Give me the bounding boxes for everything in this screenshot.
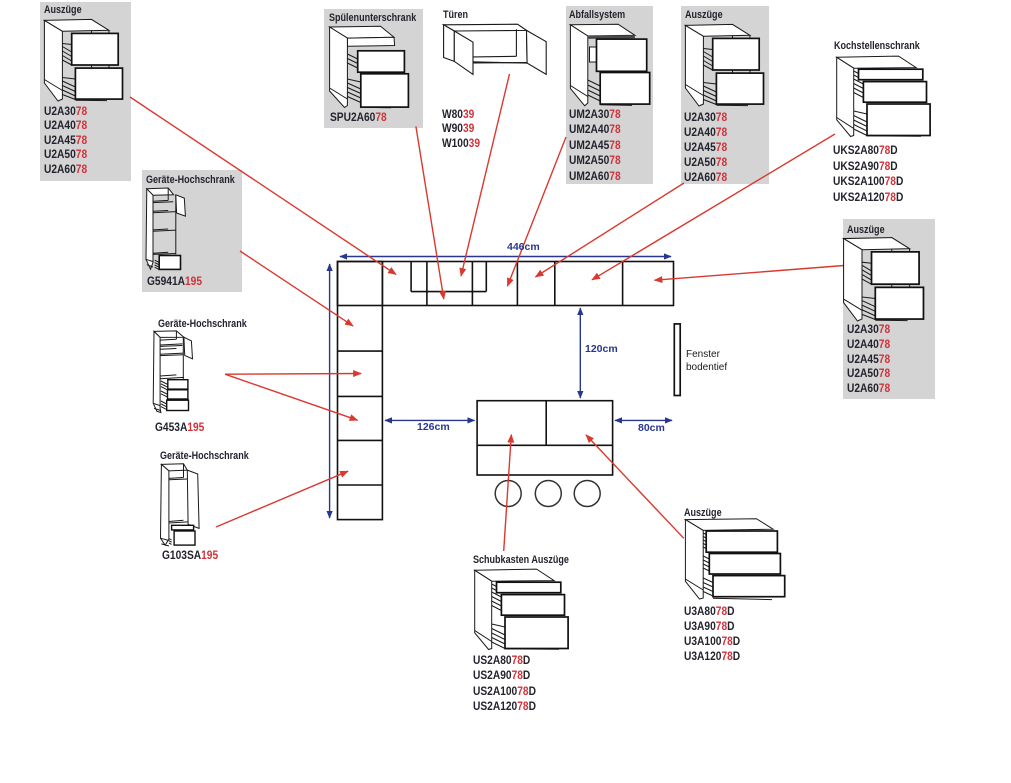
sink inset bottom line [411,291,486,293]
arrow from top-left Auszüge to plan [130,97,396,274]
arrow from Auszüge right to plan [655,266,845,281]
title Kochstellenschrank [834,40,920,52]
title Auszüge top-second [685,9,723,21]
model list U2A..78 top-left [44,104,87,176]
model G103SA195 [162,548,218,562]
title Abfallsystem [569,9,625,21]
title Auszüge right [847,224,885,236]
model list U2A..78 second [684,110,727,185]
window rectangle [674,324,680,396]
arrow from G453A to plan upper [225,373,361,376]
dimension label 126cm [417,421,450,433]
arrow from G5941A to plan [240,251,353,326]
panel Abfallsystem (gray) [566,6,653,184]
dimension label 80cm [638,422,665,434]
stool 3 [574,481,600,507]
cabinet drawing Geräte-Hochschrank G103SA (tall) [158,460,200,547]
dimension 126cm line [385,419,475,421]
title Auszüge top-left [44,4,82,16]
cabinet drawing Abfallsystem [570,24,650,106]
panel Spülenunterschrank (gray) [324,9,423,128]
plan left cabinet column outline [338,262,383,520]
left column divider 3 [338,439,383,441]
top row divider 2 [426,262,428,306]
arrow from Auszüge top-second to plan [536,183,685,277]
arrow from G103SA to plan [216,471,348,527]
dimension 120cm line [579,308,581,398]
arrow from Spülenunterschrank to plan [416,126,444,299]
cabinet drawing Spülenunterschrank [329,26,409,108]
cabinet drawing Geräte-Hochschrank G5941A (tall) [144,186,186,271]
top row divider 5 [554,262,556,306]
dimension left vertical line [329,264,331,518]
plan top cabinet row outline [338,262,674,306]
title Geräte-Hochschrank 2 [158,318,247,330]
arrow from Türen to plan [461,74,510,276]
cabinet drawing Kochstellenschrank (3 drawers) [835,56,931,137]
arrow from Auszüge bottom-right to island [586,435,684,538]
cabinet drawing Auszüge bottom-right (3 equal drawers) [684,518,785,600]
top row divider 6 [622,262,624,306]
top row divider 3 [471,262,473,306]
model list UKS2A..78D [833,143,903,205]
model G453A195 [155,420,204,434]
cabinet drawing Geräte-Hochschrank G453A (tall) [150,328,194,413]
title Spülenunterschrank [329,12,416,24]
sink inset right line [485,262,487,292]
dimension 446cm line [340,256,671,258]
stool 1 [495,481,521,507]
left column divider 1 [338,350,383,352]
model list US2A..78D [473,653,536,714]
panel Auszüge right (gray) [843,219,935,399]
title Türen [443,9,468,21]
island outline [477,401,612,475]
dimension label 446cm [507,241,540,253]
top row divider 1 [381,262,383,306]
left column divider 2 [338,395,383,397]
arrow from Kochstellenschrank to plan [592,134,835,280]
stool 2 [535,481,561,507]
left column divider 4 [338,484,383,486]
model SPU2A6078 [330,110,387,124]
model list U2A..78 right [847,322,890,396]
arrow from Abfallsystem to plan [508,137,567,286]
cabinet drawing Auszüge top-second (2 drawers) [678,18,764,106]
title Schubkasten Auszüge [473,554,569,566]
model list UM2A..78 [569,107,621,184]
panel Geräte-Hochschrank G5941A (gray) [142,170,242,292]
title Geräte-Hochschrank 1 [146,174,235,186]
island horizontal divider [477,444,612,446]
model list U3A..78D [684,604,740,664]
island vertical divider [545,401,547,446]
panel Auszüge top-left (gray) [40,2,131,181]
dimension 80cm line [615,419,672,421]
title Auszüge bottom-right [684,507,722,519]
model G5941A195 [147,274,202,288]
cabinet drawing Auszüge top-left (2 drawers) [37,13,123,101]
sink inset left line [410,262,412,292]
arrow from Schubkasten Auszüge to island [504,435,512,551]
model list W..39 [442,107,480,150]
title Geräte-Hochschrank 3 [160,450,249,462]
panel Auszüge top-second (gray) [681,6,769,184]
label Fenster bodentief [686,349,727,374]
cabinet drawing Türen (wall cabinet, open doors) [443,23,547,75]
cabinet drawing Schubkasten Auszüge (3 drawers) [473,569,569,650]
top row divider 4 [516,262,518,306]
cabinet drawing Auszüge right (2 drawers) [836,231,924,321]
arrow from G453A to plan lower [225,374,358,420]
dimension label 120cm [585,343,618,355]
